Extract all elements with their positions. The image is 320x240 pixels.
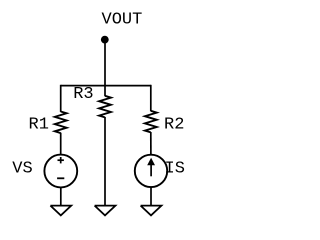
resistor R3 [99,96,111,118]
ground left [50,206,71,216]
ground middle [95,206,116,216]
svg-text:R2: R2 [164,116,184,135]
wire bus to R3 top [104,86,106,97]
resistor R1 [55,112,67,134]
wire IS to right ground [150,187,152,206]
voltage source VS [44,155,77,188]
node VOUT junction dot [101,36,109,44]
current source IS [135,155,167,187]
ground right [141,206,162,216]
wire top bus rail [61,85,151,87]
wire R3 to middle ground [104,117,106,206]
wire R1 to VS [60,133,62,155]
wire R2 to IS [150,132,152,155]
wire VS to left ground [60,187,62,205]
svg-text:R1: R1 [29,115,49,134]
svg-text:VOUT: VOUT [102,11,143,30]
resistor R2 [145,111,157,133]
wire bus to R1 top [60,85,62,112]
svg-text:VS: VS [12,159,32,178]
wire VOUT dot down to bus [104,40,106,86]
wire bus to R2 top [150,85,152,111]
svg-text:R3: R3 [73,85,93,104]
svg-text:IS: IS [165,160,185,179]
